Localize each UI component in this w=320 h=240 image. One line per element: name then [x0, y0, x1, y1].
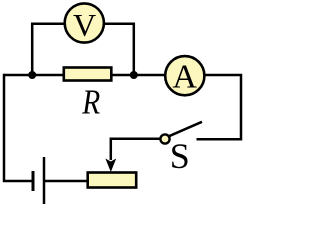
node: junction dot left — [28, 71, 36, 79]
rheostat wiper arrowhead — [105, 159, 116, 173]
wire: voltmeter branch right — [105, 24, 134, 75]
wire: voltmeter branch left — [32, 24, 64, 75]
svg-text:R: R — [81, 83, 100, 122]
wire: left vertical and bottom left to battery — [4, 74, 34, 181]
wire: A to right side, down and left to switch contact — [197, 75, 242, 139]
switch S: pivot circle — [160, 134, 169, 143]
voltmeter U: circle — [65, 3, 104, 42]
wire: battery to rheostat — [44, 180, 88, 183]
rheostat body — [88, 173, 137, 188]
wire: rheostat wiper to switch — [111, 139, 160, 160]
svg-text:S: S — [170, 136, 190, 176]
wire: main horizontal middle segment (R to A) — [111, 74, 166, 77]
battery cell: long thin plate (positive) — [43, 157, 46, 204]
resistor R — [64, 68, 112, 81]
svg-text:V: V — [73, 7, 96, 43]
svg-text:A: A — [172, 59, 197, 96]
node: junction dot right — [130, 71, 138, 79]
ammeter U: circle — [165, 56, 204, 95]
switch S: lever — [169, 122, 202, 137]
wire: main horizontal left segment — [4, 74, 64, 77]
battery cell: short thick plate (negative) — [32, 171, 35, 191]
